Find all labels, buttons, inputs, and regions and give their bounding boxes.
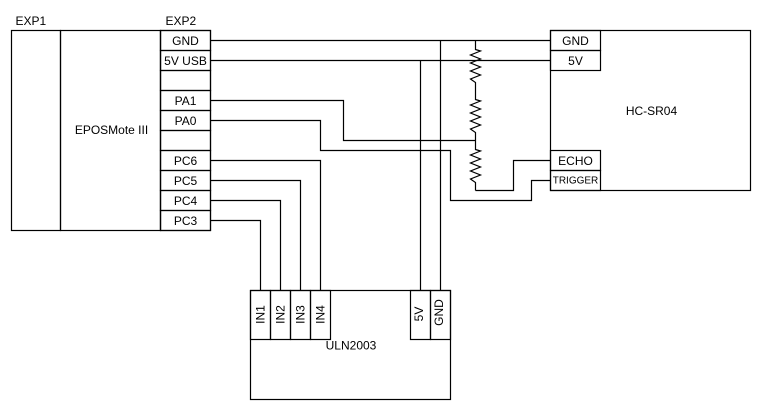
- wire PC5 to ULN2003 IN3: [211, 181, 301, 291]
- wire PC4 to ULN2003 IN2: [211, 201, 281, 291]
- wire PC3 to ULN2003 IN1: [211, 221, 261, 291]
- pin PC4 (EXP2): [161, 191, 211, 211]
- wire GND net: EXP2 GND to HC-SR04 GND: [211, 40, 551, 42]
- wire PA1 to resistor divider node: [211, 101, 476, 141]
- svg-text:IN2: IN2: [274, 305, 288, 324]
- pin IN4 (ULN2003): [311, 291, 331, 340]
- svg-text:IN1: IN1: [254, 305, 268, 324]
- wire PC6 to ULN2003 IN4: [211, 161, 321, 291]
- resistor R3 (bottom of divider chain): [471, 141, 481, 191]
- pin IN1 (ULN2003): [251, 291, 271, 340]
- pin PA0 (EXP2): [161, 111, 211, 131]
- svg-text:5V: 5V: [568, 54, 583, 68]
- svg-text:PC3: PC3: [174, 214, 198, 228]
- pin PC6 (EXP2): [161, 151, 211, 171]
- pin PC3 (EXP2): [161, 211, 211, 231]
- svg-text:ECHO: ECHO: [558, 154, 593, 168]
- svg-text:5V USB: 5V USB: [164, 54, 207, 68]
- resistor R1 (top of divider chain, from GND net): [471, 41, 481, 91]
- pin GND (HC-SR04): [551, 31, 601, 51]
- EXP1 connector block: [12, 14, 61, 231]
- pin GND (EXP2): [161, 31, 211, 51]
- svg-text:GND: GND: [432, 299, 446, 326]
- svg-text:PC4: PC4: [174, 194, 198, 208]
- svg-text:GND: GND: [172, 34, 199, 48]
- svg-text:ULN2003: ULN2003: [326, 339, 377, 353]
- wire 5V net: EXP2 5V USB to HC-SR04 5V: [211, 60, 551, 62]
- HC-SR04 module body: [551, 31, 751, 191]
- pin row empty 2 (EXP2): [161, 131, 211, 151]
- svg-text:GND: GND: [562, 34, 589, 48]
- pin IN2 (ULN2003): [271, 291, 291, 340]
- svg-text:PC5: PC5: [174, 174, 198, 188]
- svg-text:EXP2: EXP2: [166, 14, 197, 28]
- wire PA0 to HC-SR04 TRIGGER: [211, 121, 551, 201]
- svg-text:HC-SR04: HC-SR04: [626, 104, 678, 118]
- resistor R2 (middle of divider chain): [471, 91, 481, 141]
- svg-text:IN4: IN4: [314, 305, 328, 324]
- ULN2003 driver body: [251, 291, 451, 400]
- pin TRIGGER (HC-SR04): [551, 171, 601, 191]
- pin PC5 (EXP2): [161, 171, 211, 191]
- pin 5V (HC-SR04): [551, 51, 601, 71]
- wire resistor chain bottom to HC-SR04 ECHO: [476, 161, 551, 191]
- svg-text:PA1: PA1: [175, 94, 197, 108]
- svg-text:EXP1: EXP1: [16, 14, 47, 28]
- wire 5V net drop to ULN2003 5V: [420, 61, 422, 291]
- svg-text:TRIGGER: TRIGGER: [553, 176, 599, 187]
- pin GND (ULN2003): [431, 291, 451, 340]
- pin IN3 (ULN2003): [291, 291, 311, 340]
- wire GND net drop to ULN2003 GND: [440, 41, 442, 291]
- svg-text:PC6: PC6: [174, 154, 198, 168]
- pin 5V (ULN2003): [411, 291, 431, 340]
- svg-text:5V: 5V: [412, 307, 426, 322]
- pin row empty 1 (EXP2): [161, 71, 211, 91]
- pin 5V USB (EXP2): [161, 51, 211, 71]
- pin PA1 (EXP2): [161, 91, 211, 111]
- svg-text:EPOSMote III: EPOSMote III: [75, 123, 148, 137]
- EXP2 connector pin header: [161, 14, 211, 231]
- EPOSMote III module body: [61, 31, 161, 231]
- pin ECHO (HC-SR04): [551, 151, 601, 171]
- svg-text:IN3: IN3: [294, 305, 308, 324]
- svg-text:PA0: PA0: [175, 114, 197, 128]
